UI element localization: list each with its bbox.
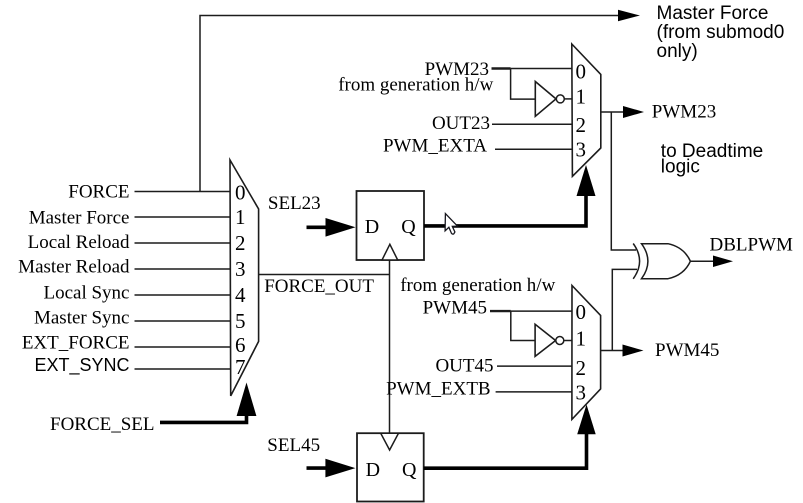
svg-text:D: D xyxy=(365,216,379,238)
wire mux M2 output xyxy=(601,111,624,113)
svg-text:2: 2 xyxy=(235,231,246,255)
mux M3 output select PWM45 xyxy=(572,286,601,420)
svg-text:Master Force: Master Force xyxy=(657,3,769,24)
wire PWM_EXTB to mux M3 input 3 xyxy=(496,391,572,393)
wire Master Sync to mux input 5 xyxy=(135,320,231,322)
mux M2 output select PWM23 xyxy=(572,44,601,176)
wire SEL23 stub (bold) xyxy=(307,226,330,230)
inverter U3 xyxy=(535,82,556,117)
svg-text:from generation h/w: from generation h/w xyxy=(400,275,555,296)
cursor pointer xyxy=(445,214,457,235)
svg-text:PWM_EXTB: PWM_EXTB xyxy=(386,379,491,400)
svg-text:PWM_EXTA: PWM_EXTA xyxy=(383,136,487,157)
svg-text:PWM23: PWM23 xyxy=(652,102,716,123)
svg-text:only): only) xyxy=(657,41,698,62)
svg-text:PWM45: PWM45 xyxy=(423,298,487,319)
wire branch PWM45 up to XOR xyxy=(612,269,637,350)
svg-text:FORCE: FORCE xyxy=(68,181,129,202)
arrowhead FORCE_SEL into mux M1 xyxy=(237,383,257,417)
wire branch PWM23 to inverter xyxy=(511,69,536,100)
arrowhead DBLPWM output xyxy=(713,256,733,268)
wire Master Reload to mux input 3 xyxy=(135,268,231,270)
svg-text:Q: Q xyxy=(401,216,416,238)
svg-text:SEL45: SEL45 xyxy=(267,435,320,456)
inverter U4 xyxy=(535,324,556,356)
svg-text:0: 0 xyxy=(235,180,246,204)
arrowhead SEL23 into D xyxy=(326,218,356,237)
svg-text:5: 5 xyxy=(235,309,246,333)
svg-text:SEL23: SEL23 xyxy=(268,193,321,214)
svg-text:3: 3 xyxy=(576,380,587,404)
arrowhead Master Force output xyxy=(618,10,640,21)
svg-text:2: 2 xyxy=(576,356,587,380)
arrowhead select into mux M2 xyxy=(577,165,596,196)
wire EXT_SYNC to mux input 7 xyxy=(135,368,231,370)
svg-text:D: D xyxy=(366,459,380,481)
xor gate U5 xyxy=(633,244,690,279)
wire top branch to Master Force xyxy=(200,16,620,192)
svg-text:3: 3 xyxy=(576,138,587,162)
svg-text:Master Force: Master Force xyxy=(29,207,130,228)
wire OUT23 to mux M2 input 2 xyxy=(492,123,572,125)
svg-text:DBLPWM: DBLPWM xyxy=(710,235,794,256)
svg-text:Q: Q xyxy=(402,459,417,481)
svg-text:FORCE_SEL: FORCE_SEL xyxy=(50,414,155,435)
wire PWM23 to mux M2 input 0 xyxy=(492,67,511,69)
flip-flop U2 (SEL23 latch) xyxy=(357,191,425,260)
svg-text:2: 2 xyxy=(576,113,587,137)
arrowhead PWM45 output xyxy=(623,345,644,357)
wire clock vertical to both flip-flops xyxy=(389,260,391,433)
wire Q45 to mux M3 select (bold) xyxy=(424,433,587,468)
svg-text:Master Sync: Master Sync xyxy=(34,307,130,328)
label to Deadtime logic xyxy=(661,141,763,177)
flip-flop U6 (SEL45 latch) xyxy=(357,433,424,501)
clock wedge U6 xyxy=(381,433,399,450)
wire XOR output xyxy=(690,260,714,262)
svg-text:0: 0 xyxy=(576,60,587,84)
svg-text:1: 1 xyxy=(576,84,587,108)
wire Local Reload to mux input 2 xyxy=(135,242,231,244)
wire SEL45 stub (bold) xyxy=(307,466,330,470)
svg-text:1: 1 xyxy=(235,205,246,229)
arrowhead select into mux M3 xyxy=(577,405,596,435)
wire FORCE_SEL select (bold) xyxy=(160,414,247,422)
svg-text:PWM45: PWM45 xyxy=(655,340,719,361)
svg-text:1: 1 xyxy=(576,327,587,351)
wire FORCE_OUT from mux M1 xyxy=(259,274,390,276)
arrowhead SEL45 into D xyxy=(325,459,355,478)
wire Local Sync to mux input 4 xyxy=(135,294,231,296)
svg-text:6: 6 xyxy=(235,333,246,357)
svg-text:Master Reload: Master Reload xyxy=(18,257,130,278)
wire Q23 to mux M2 select (bold) xyxy=(424,195,586,226)
svg-text:(from submod0: (from submod0 xyxy=(657,22,785,43)
svg-text:EXT_SYNC: EXT_SYNC xyxy=(34,355,129,376)
svg-text:Local Reload: Local Reload xyxy=(28,232,130,253)
svg-text:logic: logic xyxy=(661,157,700,178)
wire inverter U4 output to mux M3 input 1 xyxy=(564,340,572,342)
svg-text:4: 4 xyxy=(235,283,246,307)
svg-text:OUT45: OUT45 xyxy=(435,355,493,376)
wire Master Force to mux input 1 xyxy=(135,216,231,218)
svg-text:OUT23: OUT23 xyxy=(432,113,490,134)
clock wedge U2 xyxy=(382,244,398,260)
wire branch PWM23 down to XOR xyxy=(611,112,636,250)
wire PWM_EXTA to mux M2 input 3 xyxy=(495,148,572,150)
wire EXT_FORCE to mux input 6 xyxy=(135,346,231,348)
wire FORCE to mux input 0 xyxy=(135,191,231,193)
svg-text:from generation h/w: from generation h/w xyxy=(338,75,493,96)
wire OUT45 to mux M3 input 2 xyxy=(497,365,572,367)
node Master Force (from submod0 only) xyxy=(657,3,785,62)
arrowhead PWM23 output xyxy=(623,106,644,118)
wire inverter U3 output to mux M2 input 1 xyxy=(564,98,572,100)
wire branch PWM45 to inverter U4 xyxy=(511,311,535,340)
svg-text:0: 0 xyxy=(576,300,587,324)
svg-text:EXT_FORCE: EXT_FORCE xyxy=(22,332,130,353)
svg-text:FORCE_OUT: FORCE_OUT xyxy=(264,276,374,297)
svg-text:3: 3 xyxy=(235,257,246,281)
wire PWM45 to mux M3 input 0 xyxy=(490,310,511,312)
svg-text:Local Sync: Local Sync xyxy=(43,283,129,304)
svg-text:7: 7 xyxy=(235,355,246,379)
wire mux M3 output xyxy=(601,350,623,352)
mux M1 force select 8:1 xyxy=(230,160,259,396)
